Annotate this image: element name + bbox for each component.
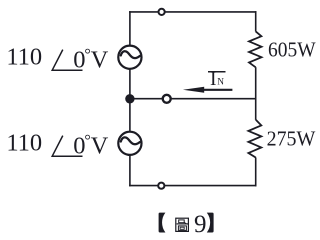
terminal middle — [163, 95, 171, 103]
node junction dot — [125, 94, 134, 103]
caption character tu middle bar — [177, 223, 188, 225]
arrow IN head — [183, 87, 204, 93]
svg-text:110: 110 — [6, 129, 42, 156]
svg-text:V: V — [91, 133, 109, 160]
wire top — [129, 11, 256, 13]
ac source V2 circle — [118, 132, 141, 155]
wire right vertical segment 2 — [255, 67, 257, 120]
svg-text:110: 110 — [6, 43, 42, 70]
wire bottom — [129, 185, 256, 187]
resistor R2 275W zigzag — [248, 120, 261, 158]
ac source V1 circle — [118, 46, 141, 69]
svg-text:N: N — [217, 78, 224, 88]
terminal bottom — [158, 183, 164, 189]
terminal top — [159, 9, 165, 15]
label IN overline — [208, 71, 226, 73]
caption right lenticular bracket — [207, 213, 214, 233]
wire middle horizontal — [130, 98, 256, 100]
wire left vertical — [129, 11, 131, 186]
caption character tu bottom inner mark — [180, 227, 184, 229]
caption character tu top right tick — [184, 222, 186, 224]
resistor R1 605W zigzag — [249, 31, 262, 67]
caption character tu bottom box — [178, 226, 186, 231]
svg-text:V: V — [91, 47, 109, 74]
ac source V1 sine — [121, 51, 140, 58]
svg-text:9: 9 — [194, 211, 207, 238]
wire right vertical segment 1 — [255, 11, 257, 31]
svg-text:275W: 275W — [267, 127, 316, 151]
source V1 angle symbol — [52, 50, 82, 71]
svg-text:I: I — [210, 69, 217, 90]
source V2 angle symbol — [52, 136, 82, 157]
caption character tu top inner box — [179, 220, 185, 223]
wire right vertical segment 3 — [255, 158, 257, 187]
caption left lenticular bracket — [159, 213, 166, 233]
svg-text:605W: 605W — [268, 38, 316, 62]
ac source V2 sine — [121, 137, 140, 144]
arrow IN shaft — [203, 89, 232, 91]
caption character tu outer box — [176, 218, 189, 231]
